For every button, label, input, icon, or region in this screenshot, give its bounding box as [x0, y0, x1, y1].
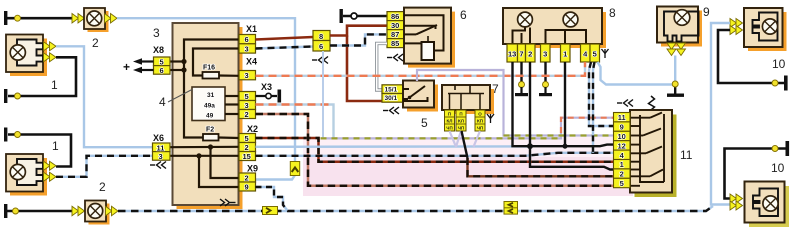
svg-text:7: 7: [519, 50, 523, 59]
side repeater lamp U9 box: [657, 7, 702, 47]
wire X4.3 to U8 pin4 (salmon on blue dashed): [256, 62, 586, 76]
internal wire X1.3 to F16 to X4.3: [193, 49, 239, 76]
turn switch U11 body: [630, 110, 677, 197]
svg-text:2: 2: [245, 143, 249, 152]
svg-text:3: 3: [159, 152, 163, 161]
cluster indicator lamp right: [563, 12, 578, 27]
svg-text:3: 3: [245, 45, 249, 54]
rear lamp U10 top: connector: [730, 19, 743, 35]
svg-text:ЧП: ЧП: [458, 126, 464, 131]
svg-text:2: 2: [99, 180, 106, 194]
svg-text:F2: F2: [206, 127, 214, 134]
svg-text:2: 2: [245, 174, 249, 183]
svg-text:3: 3: [543, 50, 547, 59]
svg-text:5: 5: [421, 116, 428, 130]
svg-text:6: 6: [160, 66, 164, 75]
connector X2: [239, 124, 258, 161]
connector X9: [239, 164, 258, 192]
svg-text:X8: X8: [153, 45, 164, 55]
wire ground to lamp2 bottom (black): [7, 208, 73, 214]
ground G4 bottom-left: [4, 204, 7, 218]
mounting block U3 body: [173, 23, 243, 209]
U10 top black wire to ground: [718, 30, 784, 83]
svg-text:X2: X2: [247, 124, 258, 134]
svg-text:F16: F16: [203, 65, 215, 72]
front lamp 1 (top-left): [6, 35, 47, 77]
svg-text:5: 5: [593, 50, 597, 59]
svg-text:ЧП: ЧП: [477, 126, 483, 131]
svg-text:ЧП: ЧП: [446, 126, 452, 131]
U10 top light blue wire down right side: [711, 23, 730, 205]
wire C.6 to relay 87 (blue w/ black dash): [330, 34, 387, 45]
svg-text:1: 1: [51, 78, 58, 92]
svg-text:11: 11: [680, 148, 693, 162]
U8 pin2 black wire to U11 pin2: [530, 62, 614, 170]
U8 pin5 dashed wire to U11 pin9 (blue w/ black dash): [589, 62, 614, 126]
svg-text:2: 2: [245, 110, 249, 119]
svg-text:1: 1: [563, 50, 567, 59]
svg-text:2: 2: [92, 36, 99, 50]
internal wire X8 pins to bus: [170, 62, 184, 71]
svg-text:1: 1: [52, 139, 59, 153]
connector mark below X9: [220, 199, 236, 206]
svg-text:4: 4: [159, 95, 166, 109]
svg-text:X3: X3: [261, 82, 272, 92]
fuse F16: [203, 65, 220, 79]
hazard switch U7 body: [442, 85, 494, 114]
svg-text:5: 5: [620, 179, 624, 188]
svg-text:10: 10: [618, 132, 626, 141]
hazard feed line (lavender solid) with branches to U7 pins: [450, 131, 481, 147]
U8 pin3 to ground: [539, 62, 552, 96]
ground G1 top-left: [4, 11, 7, 25]
inline connector C pins 8/6: [313, 31, 330, 52]
wire lamp2-top to X9.2 (light blue), long runs right then down x295: [117, 18, 295, 179]
cluster pins row: [507, 44, 600, 62]
wire X9.9 step to bottom harness wire (blue w/ black dash): [256, 187, 288, 211]
svg-text:30: 30: [391, 21, 399, 30]
svg-text:X6: X6: [153, 133, 164, 143]
inline connector on x295 wire: [290, 162, 299, 176]
svg-text:30/1: 30/1: [385, 95, 398, 102]
front lamp 1 (bottom-left): [6, 154, 47, 196]
svg-text:КП: КП: [477, 119, 483, 124]
U7 middle pin black diagonal + dashed to U11 pin2: [462, 131, 614, 176]
svg-text:86: 86: [391, 12, 399, 21]
svg-text:3: 3: [245, 71, 249, 80]
wire C.8 to relay30 and down to ignition 30/1 (brown): [330, 26, 387, 101]
svg-text:85: 85: [391, 39, 399, 48]
connector mark below ignition pins: [383, 107, 399, 114]
wire relay4 pin2 black w/ red dash to U11 pin5: [256, 114, 614, 186]
svg-text:6: 6: [319, 42, 323, 51]
wire X2.2 light blue to junction: [256, 145, 531, 148]
harness pink band upper: [303, 137, 633, 157]
svg-text:+: +: [123, 60, 130, 74]
flasher relay U6 pins 86/30/87/85: [387, 12, 404, 48]
wire lamp1-top upper pin to X6.11 (light blue): [56, 46, 152, 147]
svg-text:7: 7: [492, 82, 499, 96]
junction dot X2.2/U8.2: [527, 143, 533, 149]
U10 bottom black wire to ground: [725, 149, 786, 199]
connector below U9 (down arrows): [667, 43, 686, 56]
U8 pin5 dashed drop to hazard feed line (blue w/ black dash): [593, 62, 595, 153]
lavender wire from ignition contact to U11 pin10: [417, 70, 614, 136]
wire lamp1-bottom lower pin to X6.3 (blue w/ black dash): [56, 156, 152, 177]
repeater lamp 2 (bottom): [85, 201, 110, 225]
connector X1: [239, 24, 257, 54]
svg-text:5: 5: [245, 92, 249, 101]
svg-text:49a: 49a: [204, 103, 215, 110]
fuse F2: [203, 127, 219, 141]
svg-text:9: 9: [703, 5, 710, 19]
ground right bottom: [786, 141, 790, 156]
ignition switch U5 pins: [382, 85, 403, 102]
U8 pin5 light blue wire to repeater 9: [598, 62, 674, 85]
harness fork symbol right of U7 pins: [487, 114, 494, 123]
svg-text:3: 3: [153, 26, 160, 40]
U8 pin13 black wire to U11 pin12: [513, 62, 614, 146]
svg-text:11: 11: [618, 113, 626, 122]
connector X8: [153, 45, 170, 75]
svg-text:8: 8: [609, 6, 616, 20]
rear lamp U10 bottom box: [745, 182, 790, 228]
wire X1.3 to connector C pin 6 (blue w/ black dash): [256, 47, 314, 49]
internal bus from X1.6 down left side: [184, 40, 239, 138]
svg-text:15/1: 15/1: [385, 87, 398, 94]
svg-text:10: 10: [771, 161, 785, 175]
svg-text:2: 2: [528, 50, 532, 59]
hazard switch pin stacks: [445, 110, 486, 131]
U9 wire down: blue to junction dot then black to ground: [667, 56, 684, 97]
svg-text:П: П: [448, 112, 451, 117]
internal wire X6.11 to X2.2 and X9.2: [170, 147, 239, 178]
inline connector on bottom wire (left): [263, 207, 278, 215]
connector X4: [239, 57, 257, 81]
svg-text:87: 87: [391, 30, 399, 39]
plus supply arrows at X8: [123, 58, 154, 74]
connector mark below X6: [150, 162, 166, 169]
svg-text:49: 49: [206, 113, 214, 120]
svg-text:X9: X9: [247, 164, 258, 174]
svg-text:6: 6: [245, 35, 249, 44]
wire ground to lamp2 top (black): [7, 15, 73, 21]
wire relay85 to ignition 15/1 (grey): [377, 43, 387, 90]
turn switch U11 pin column: [614, 113, 631, 189]
svg-text:9: 9: [245, 183, 249, 192]
ground for relay 6: [340, 9, 388, 23]
junction dots X8 on bus: [181, 59, 186, 73]
rear lamp U10 bottom: connector: [730, 194, 743, 210]
connector lamp1-bottom: [44, 161, 57, 181]
relay4 wires to pins: [225, 96, 239, 114]
U8 pin1 black wire down: [564, 62, 566, 146]
wire relay4 pin3 (salmon on blue dashed) to harness: [256, 105, 334, 140]
X3 stub with test connector: [256, 82, 282, 103]
wire X2.15 blue w/ black dash to U11 pin4: [256, 153, 614, 156]
long wire lamp2-bottom to right rear lamp (blue w/ black dash): [118, 206, 713, 211]
svg-text:3: 3: [245, 101, 249, 110]
cluster indicator lamp left: [518, 12, 533, 27]
svg-text:2: 2: [620, 170, 624, 179]
label 4 with pointer: [159, 90, 192, 110]
svg-text:6: 6: [460, 8, 467, 22]
svg-text:9: 9: [620, 123, 624, 132]
svg-text:10: 10: [772, 57, 786, 71]
instrument cluster U8 body: [503, 8, 606, 48]
connector lamp1-top (two rows): [44, 42, 57, 62]
wire X2.5 brown w/ black dash to U11 pin1: [256, 138, 614, 162]
svg-text:X1: X1: [246, 24, 257, 34]
flasher relay U6 body: [404, 8, 455, 68]
svg-text:5: 5: [245, 134, 249, 143]
svg-text:31: 31: [207, 92, 215, 99]
svg-text:П: П: [459, 112, 462, 117]
faint blue drop from connector C to L1: [322, 51, 324, 138]
wire X1.6 to connector C pin 8 (brown): [256, 37, 314, 40]
turn switch U11 stalk zigzag: [649, 96, 655, 110]
svg-text:КЛ: КЛ: [458, 119, 464, 124]
repeater lamp 2 (top): [84, 8, 109, 32]
turn relay U4 box inside block: [192, 87, 225, 121]
harness fork symbol right of U8 pins: [602, 49, 609, 58]
connector mark below C: [312, 57, 328, 64]
svg-text:13: 13: [508, 50, 516, 59]
connector on lamp 2 top left: [72, 14, 85, 24]
ground G2: [4, 89, 21, 103]
turn switch U11 chevron mark: [617, 100, 633, 107]
harness pink band lower: [303, 157, 633, 196]
internal wire F2 to X2.5: [219, 136, 240, 139]
wire lamp1-bottom upper pin to ground G3 (black): [8, 135, 71, 167]
svg-text:X4: X4: [246, 57, 257, 67]
connector on lamp 2 top right: [105, 14, 118, 24]
svg-text:8: 8: [319, 32, 323, 41]
rear lamp U10 top box: [744, 8, 787, 51]
connector mark below relay6 pins: [387, 54, 403, 61]
ignition switch U5 body: [403, 81, 438, 112]
connector lamp2-bottom left: [72, 206, 85, 215]
svg-text:О: О: [478, 112, 482, 117]
connector lamp2-bottom right: [106, 206, 119, 215]
wire lamp1-top lower pin to ground G2 (black): [8, 57, 76, 96]
svg-text:15: 15: [243, 152, 251, 161]
svg-text:1: 1: [620, 160, 624, 169]
ground G3: [4, 128, 7, 142]
inline connector on bottom wire (right): [504, 202, 518, 215]
relay4 output pins 5/3/2: [239, 92, 256, 120]
U8 pin7 to ground: [515, 62, 528, 96]
svg-text:12: 12: [618, 141, 626, 150]
internal wire X6.3 to X2.15 and X9.9: [170, 156, 239, 187]
svg-text:КЛ: КЛ: [447, 119, 453, 124]
connector X6: [153, 133, 171, 161]
lavender/yellow wire L1 to U11 pin11: [321, 118, 614, 139]
